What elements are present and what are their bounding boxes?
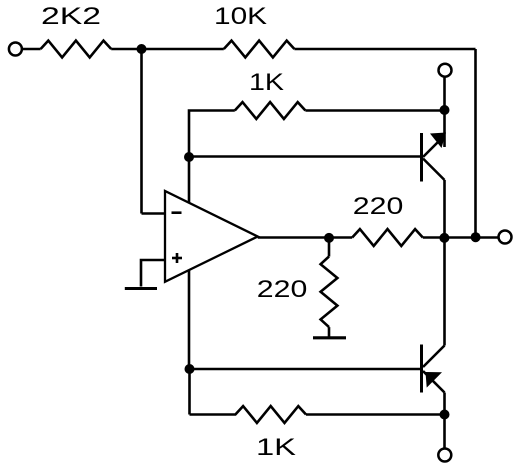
- wire 1K loop left vertical: [189, 111, 235, 158]
- node D3: [440, 105, 450, 115]
- wire Q1 base: [189, 155, 420, 158]
- svg-text:2K2: 2K2: [41, 3, 101, 30]
- node D2: [184, 152, 194, 162]
- node D6: [471, 232, 481, 242]
- wire D1 down to inverting input: [140, 49, 143, 214]
- svg-text:10K: 10K: [214, 3, 267, 30]
- node D5: [439, 233, 449, 243]
- wire R5 to ground: [328, 327, 331, 336]
- wire R3 to D3: [305, 109, 444, 112]
- wire plus input: [141, 260, 165, 287]
- output terminal: [499, 231, 512, 244]
- terminal top right: [439, 64, 452, 77]
- ground (plus input): [125, 287, 157, 290]
- svg-text:1K: 1K: [256, 434, 296, 461]
- svg-text:1K: 1K: [249, 69, 284, 96]
- resistor R2 10K: [224, 41, 295, 58]
- wire right rail down: [474, 49, 477, 238]
- wire op-amp V+ pin: [188, 157, 191, 203]
- resistor R3 1K: [235, 102, 306, 119]
- op-amp U1: [165, 191, 258, 282]
- wire Q2 base: [190, 368, 421, 371]
- wire R6 to D8: [306, 413, 445, 416]
- wire D7 down to R6: [188, 369, 191, 415]
- wire D4 to R4: [329, 236, 352, 239]
- wire op-amp V- pin down: [188, 270, 191, 369]
- ground (R5): [313, 336, 346, 339]
- wire to op-amp minus input: [142, 212, 166, 215]
- wire D4 down to R5: [328, 238, 331, 257]
- node D8: [440, 410, 450, 420]
- input terminal: [9, 43, 22, 56]
- node junction D1: [137, 44, 147, 54]
- wire op-amp output: [258, 236, 329, 239]
- wire D8 to bottom terminal: [443, 415, 446, 449]
- wire R1 to R2: [111, 48, 224, 51]
- svg-text:220: 220: [353, 193, 404, 220]
- resistor R6 1K (bottom): [190, 406, 307, 423]
- svg-text:220: 220: [257, 276, 308, 303]
- transistor Q1: [422, 110, 447, 238]
- resistor R4 220: [352, 229, 423, 246]
- node D7: [185, 364, 195, 374]
- wire D3 up to terminal: [443, 77, 446, 110]
- node D4: [324, 233, 334, 243]
- terminal bottom: [438, 449, 451, 462]
- wire D5 to D6: [444, 236, 475, 239]
- wire R2 to top-right corner: [294, 48, 475, 51]
- transistor Q2: [422, 238, 445, 415]
- wire D6 to output terminal: [476, 236, 498, 239]
- resistor R5 220 (vertical): [321, 257, 338, 328]
- resistor R1 2K2: [41, 41, 112, 58]
- wire R4 to D5: [423, 236, 445, 239]
- wire input to R1: [23, 48, 41, 51]
